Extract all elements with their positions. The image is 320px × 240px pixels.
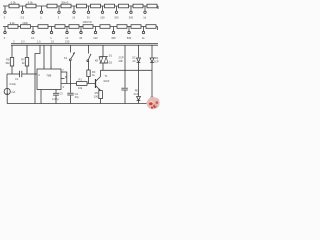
node terminal 3 (row1) bbox=[58, 6, 60, 19]
svg-text:9013: 9013 bbox=[104, 79, 110, 83]
svg-text:2CP: 2CP bbox=[154, 60, 159, 64]
node terminal 30 (row2) bbox=[79, 27, 82, 40]
wire collector rail bbox=[101, 69, 153, 71]
svg-text:3: 3 bbox=[13, 40, 15, 44]
wire R3 to base wire bbox=[88, 77, 90, 84]
svg-text:47μ: 47μ bbox=[75, 95, 80, 99]
wire row2 end tick bbox=[157, 27, 159, 31]
resistor RA9 bbox=[133, 4, 143, 8]
node terminal 0 (row2) bbox=[4, 27, 6, 40]
resistor RA2 bbox=[26, 0, 36, 7]
wire base line bbox=[61, 83, 96, 85]
svg-text:0.3: 0.3 bbox=[21, 40, 25, 44]
node terminal 30 (row1) bbox=[87, 6, 90, 19]
resistor RA10 bbox=[147, 4, 157, 8]
capacitor C2 bbox=[67, 84, 79, 104]
svg-text:10: 10 bbox=[72, 15, 75, 19]
svg-text:T1: T1 bbox=[105, 74, 109, 78]
resistor RB10 bbox=[146, 25, 156, 29]
node terminal 300 (row1) bbox=[114, 6, 119, 19]
svg-text:R1: R1 bbox=[79, 78, 83, 82]
wire from bus to R7 bbox=[26, 45, 28, 57]
transistor T1 bbox=[96, 74, 110, 91]
wire ground rail bbox=[7, 103, 152, 105]
wire to meter bbox=[6, 74, 8, 88]
resistor R3 bbox=[87, 62, 96, 77]
svg-text:30: 30 bbox=[79, 36, 82, 40]
wire R6 to node bbox=[11, 66, 13, 74]
svg-text:0.5: 0.5 bbox=[21, 15, 25, 19]
svg-text:3: 3 bbox=[63, 85, 65, 89]
resistor RB4 bbox=[55, 25, 65, 29]
wire C4 down bbox=[124, 70, 126, 88]
svg-text:7D1: 7D1 bbox=[154, 56, 159, 60]
resistor R7 bbox=[21, 58, 29, 67]
wire from bus to R6 bbox=[11, 45, 13, 57]
node terminal 1 (row1) bbox=[40, 6, 42, 19]
svg-text:6.5k: 6.5k bbox=[28, 0, 34, 4]
node terminal 10 (row2) bbox=[65, 27, 68, 40]
node terminal 1k (row1) bbox=[143, 6, 146, 19]
svg-text:2CP: 2CP bbox=[119, 56, 124, 60]
svg-text:100: 100 bbox=[93, 36, 98, 40]
diode D3 bbox=[132, 56, 140, 64]
svg-text:500: 500 bbox=[129, 15, 134, 19]
svg-text:K1: K1 bbox=[64, 56, 68, 60]
node terminal 10 (row1) bbox=[72, 6, 75, 19]
wire bus to U1 top pin a bbox=[43, 45, 45, 69]
capacitor C1 bbox=[10, 71, 22, 86]
svg-text:30: 30 bbox=[87, 15, 90, 19]
resistor RA6 bbox=[91, 4, 101, 8]
svg-text:100: 100 bbox=[94, 94, 99, 98]
svg-text:1: 1 bbox=[50, 36, 52, 40]
wire row2 bus bbox=[3, 26, 158, 28]
svg-text:R5: R5 bbox=[95, 91, 99, 95]
svg-text:D1: D1 bbox=[109, 54, 113, 58]
resistor RB1 bbox=[8, 21, 18, 29]
node terminal 0.1 (row2) bbox=[31, 27, 35, 40]
wire selector bus (double line) bbox=[11, 44, 158, 46]
resistor RB8 bbox=[117, 25, 127, 29]
resistor RA4 bbox=[61, 0, 71, 7]
wire U1 bottom pin to ground branch bbox=[40, 90, 42, 104]
wire branch D4 bbox=[151, 45, 153, 58]
svg-text:1: 1 bbox=[40, 15, 42, 19]
pin 7 bbox=[61, 68, 65, 72]
resistor RA1 bbox=[9, 0, 19, 7]
svg-text:C2: C2 bbox=[75, 92, 79, 96]
svg-text:PD: PD bbox=[135, 89, 139, 93]
resistor RB9 bbox=[131, 25, 141, 29]
resistor RB3 bbox=[38, 25, 48, 29]
resistor RB7 bbox=[100, 25, 110, 29]
op-amp U1 (IC 788) bbox=[37, 66, 61, 89]
node terminal 500 (row1) bbox=[129, 6, 134, 19]
svg-text:mA: mA bbox=[11, 90, 15, 94]
wire R7 to node bbox=[26, 66, 28, 74]
wire branch D3 bbox=[138, 45, 140, 57]
svg-text:K8: K8 bbox=[95, 58, 99, 62]
svg-text:0: 0 bbox=[4, 36, 6, 40]
wire R5 to ground rail bbox=[100, 99, 102, 104]
label D bbox=[134, 89, 139, 97]
svg-text:150: 150 bbox=[65, 40, 70, 44]
switch K2 bbox=[87, 45, 91, 62]
watermark logo bbox=[146, 95, 159, 109]
diode pair D1 D2 bbox=[95, 45, 113, 70]
resistor RA3 bbox=[47, 4, 57, 8]
resistor RB5 bbox=[69, 25, 79, 29]
wire input row bbox=[7, 73, 37, 75]
svg-text:9.1k: 9.1k bbox=[10, 21, 16, 25]
resistor R5 bbox=[94, 91, 103, 99]
svg-text:100k: 100k bbox=[22, 21, 28, 25]
pin 8 bbox=[61, 75, 67, 79]
wire D3 to rail bbox=[138, 63, 140, 71]
svg-text:30k×3: 30k×3 bbox=[61, 0, 69, 4]
node terminal 1 (row2) bbox=[50, 27, 52, 40]
svg-text:R6: R6 bbox=[6, 58, 10, 62]
node terminal 500 (row2) bbox=[127, 27, 132, 40]
svg-text:15: 15 bbox=[51, 40, 54, 44]
svg-text:10k: 10k bbox=[78, 86, 83, 90]
svg-text:500: 500 bbox=[127, 36, 132, 40]
resistor RA5 bbox=[77, 4, 87, 8]
svg-text:1.5: 1.5 bbox=[37, 40, 41, 44]
diode D bbox=[137, 97, 141, 104]
svg-text:300: 300 bbox=[114, 15, 119, 19]
switch K1 bbox=[64, 45, 75, 60]
wire meter to ground rail bbox=[6, 95, 8, 104]
wire emitter down bbox=[100, 89, 102, 91]
node terminal 100 (row2) bbox=[93, 27, 98, 40]
svg-text:OC: OC bbox=[132, 56, 136, 60]
resistor R1 bbox=[77, 78, 88, 90]
wire bus tap jog to ground branch bbox=[35, 45, 40, 103]
meter M (mA) bbox=[4, 88, 15, 95]
wire collector up bbox=[100, 70, 102, 76]
wire bus to U1 top pin b bbox=[50, 45, 52, 69]
svg-text:R7: R7 bbox=[21, 58, 25, 62]
svg-text:C1: C1 bbox=[15, 77, 19, 81]
wire row1 end tick bbox=[157, 6, 159, 9]
wire row1 bus bbox=[3, 5, 158, 7]
svg-text:30k: 30k bbox=[5, 61, 10, 65]
wire K1 down to node B bbox=[70, 61, 72, 84]
wire D4 to rail and down bbox=[151, 63, 153, 104]
resistor RA8 bbox=[119, 4, 129, 8]
resistor R6 bbox=[5, 58, 13, 67]
wire branch C4 bbox=[124, 45, 126, 70]
svg-text:3k: 3k bbox=[22, 61, 25, 65]
node terminal 300 (row2) bbox=[111, 27, 116, 40]
svg-text:788: 788 bbox=[46, 73, 51, 77]
svg-text:C: C bbox=[38, 73, 40, 77]
wire pin7 down to base line bbox=[65, 72, 67, 84]
svg-text:3: 3 bbox=[58, 15, 60, 19]
svg-text:300: 300 bbox=[111, 36, 116, 40]
capacitor C3 bbox=[52, 90, 63, 104]
node terminal 1k (row2) bbox=[142, 27, 145, 40]
capacitor C4 bbox=[121, 88, 127, 103]
svg-text:C3: C3 bbox=[59, 92, 63, 96]
svg-text:100V×8: 100V×8 bbox=[83, 20, 93, 24]
svg-text:0.47μ: 0.47μ bbox=[52, 97, 59, 101]
wire D3 rail down bbox=[138, 70, 140, 96]
svg-text:100: 100 bbox=[100, 15, 105, 19]
svg-text:D2: D2 bbox=[109, 61, 113, 65]
svg-text:1k: 1k bbox=[142, 36, 145, 40]
svg-text:2C: 2C bbox=[132, 59, 135, 63]
svg-text:10: 10 bbox=[65, 36, 68, 40]
resistor RB2 bbox=[21, 21, 31, 29]
label C4 bbox=[119, 56, 124, 64]
svg-text:1k: 1k bbox=[143, 15, 146, 19]
resistor RB6 bbox=[83, 20, 94, 28]
node terminal 100 (row1) bbox=[100, 6, 105, 19]
node terminal 0 (row1) bbox=[4, 6, 6, 19]
diode D4 bbox=[150, 58, 154, 63]
node terminal 0.5 (row1) bbox=[21, 6, 25, 19]
svg-text:0.02μ: 0.02μ bbox=[10, 82, 17, 86]
svg-text:2CP: 2CP bbox=[134, 92, 139, 96]
svg-text:0.1: 0.1 bbox=[31, 36, 35, 40]
label D4 bbox=[154, 56, 159, 64]
svg-text:0: 0 bbox=[4, 15, 6, 19]
svg-text:20F: 20F bbox=[119, 59, 124, 63]
svg-text:0.5k: 0.5k bbox=[11, 0, 17, 4]
node bus tap labels bbox=[13, 40, 70, 44]
resistor RA7 bbox=[105, 4, 115, 8]
